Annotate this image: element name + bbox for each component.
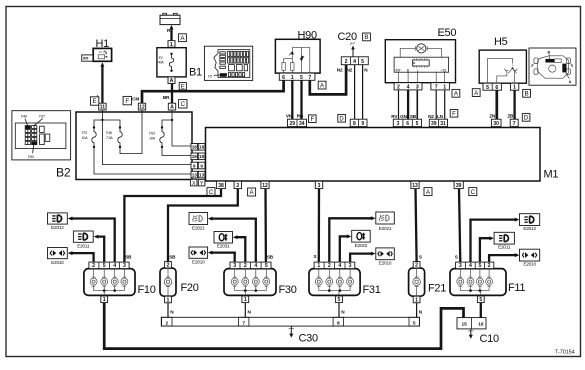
node label C xyxy=(207,188,215,196)
svg-text:13: 13 xyxy=(192,173,198,178)
E50 internals xyxy=(394,44,449,83)
node label F (B2 pin12) xyxy=(123,96,131,104)
connector F20 body xyxy=(160,268,176,296)
svg-text:2: 2 xyxy=(488,263,491,269)
connector F21 body xyxy=(409,268,425,296)
svg-text:2: 2 xyxy=(397,85,400,91)
wire F31 pin4 to E2022 xyxy=(340,236,348,262)
svg-text:10A: 10A xyxy=(149,137,156,141)
M1 pin 3 xyxy=(315,181,322,188)
svg-text:2: 2 xyxy=(165,320,168,326)
E2021 icon box xyxy=(189,213,208,225)
node label B (H5 pin1) xyxy=(523,89,531,97)
C20 pin row 2 4 5 xyxy=(341,57,368,65)
fuse F53 10A xyxy=(172,110,191,146)
connector F30 body xyxy=(224,269,276,296)
svg-text:SB: SB xyxy=(125,255,132,260)
E2011 icon box xyxy=(494,232,514,244)
svg-text:S: S xyxy=(455,255,458,260)
wire C20 pin4 to M1 pin8 xyxy=(354,65,356,120)
svg-text:6: 6 xyxy=(282,75,285,81)
svg-text:39: 39 xyxy=(456,183,462,189)
svg-text:ZN: ZN xyxy=(489,113,496,118)
pins 19/19 xyxy=(191,153,198,160)
node label F xyxy=(450,110,458,118)
svg-text:L: L xyxy=(417,68,419,72)
fuse F48 7.5A xyxy=(119,126,121,128)
svg-text:2: 2 xyxy=(244,263,247,269)
wire F31 pin5 to C30 pin8 (N) xyxy=(338,303,340,318)
wire E50 pin3 to M1 pin5 (SB) xyxy=(416,90,418,119)
F10 pin row xyxy=(89,262,129,269)
pins 9/9 xyxy=(191,162,198,169)
wire F10 pin1 to C10 pin15 (main earth run) xyxy=(104,303,463,349)
F31 pin row xyxy=(314,262,355,269)
svg-text:A: A xyxy=(170,78,174,84)
C30 pin 5 xyxy=(409,317,419,326)
M1 pin 12 xyxy=(261,181,269,188)
svg-text:7: 7 xyxy=(513,121,516,127)
svg-text:5: 5 xyxy=(265,263,268,269)
E2012 icon box xyxy=(48,213,68,224)
svg-text:18: 18 xyxy=(199,145,205,150)
svg-text:SB: SB xyxy=(267,255,274,260)
svg-text:7: 7 xyxy=(242,320,245,326)
wire M1 pin3 to F31 pin1 (S) xyxy=(318,189,321,263)
svg-text:CM: CM xyxy=(132,96,139,101)
M1 top pin 7 xyxy=(510,119,518,126)
svg-text:5: 5 xyxy=(338,297,341,303)
earth bar C30 xyxy=(161,317,419,326)
body computer M1 xyxy=(206,128,541,182)
svg-text:F48: F48 xyxy=(21,115,27,119)
svg-text:5: 5 xyxy=(479,297,482,303)
svg-text:1: 1 xyxy=(167,297,170,303)
wire M1 pin38 to F10 pin3 (SB) xyxy=(124,189,221,263)
connector F31 body xyxy=(309,269,360,296)
wire F30 pin4 to E2021 xyxy=(211,219,256,263)
node label E (B2 pin11) xyxy=(90,97,98,105)
F31 bottom pin 5 xyxy=(336,296,343,303)
svg-text:RG: RG xyxy=(297,113,304,118)
svg-text:C: C xyxy=(209,189,214,196)
svg-text:4: 4 xyxy=(469,263,472,269)
svg-text:11: 11 xyxy=(100,105,106,111)
svg-text:ZB: ZB xyxy=(507,113,514,118)
F11 bottom pin 5 xyxy=(477,296,484,303)
svg-text:5: 5 xyxy=(486,85,489,91)
svg-text:F2: F2 xyxy=(208,75,212,79)
wire F31 pin2 to E2021 xyxy=(329,218,372,262)
svg-text:3: 3 xyxy=(349,263,352,269)
battery symbol xyxy=(160,13,180,24)
svg-text:F31: F31 xyxy=(363,284,381,296)
svg-text:F30: F30 xyxy=(279,284,297,296)
node label A xyxy=(248,188,256,196)
E50 pin row 2 4 3 7 1 xyxy=(394,83,422,90)
node label F xyxy=(309,115,317,123)
wire H5 pin6 to M1 pin30 (ZN) xyxy=(495,90,498,119)
svg-text:Y: Y xyxy=(200,181,204,187)
E2021 icon box xyxy=(376,212,395,224)
svg-text:1: 1 xyxy=(170,42,173,48)
svg-text:4: 4 xyxy=(353,59,356,65)
wire H90 pin6 to B2 pin12 (CM) xyxy=(142,80,284,103)
svg-text:12: 12 xyxy=(139,105,145,111)
E2010 icon box xyxy=(48,248,68,259)
B2 pin A xyxy=(168,103,175,110)
node label Y xyxy=(198,179,205,186)
svg-text:F21: F21 xyxy=(428,283,446,295)
B2 pin 12 xyxy=(138,103,145,110)
svg-text:38: 38 xyxy=(218,183,224,189)
svg-text:3: 3 xyxy=(123,263,126,269)
wire F30 pin3 to E2010 xyxy=(211,253,234,263)
wire E50 pin1 to M1 pin31 (LN) xyxy=(444,90,446,119)
INT tag xyxy=(82,55,93,61)
svg-text:5: 5 xyxy=(300,75,303,81)
E2022 icon box xyxy=(352,230,371,242)
wire H90 pin1 to M1 pin29 (VN) xyxy=(291,80,293,119)
svg-text:4: 4 xyxy=(407,85,410,91)
B2 fusebox location illustration xyxy=(12,111,71,160)
svg-text:1: 1 xyxy=(415,297,418,303)
F20 bottom pin 1 xyxy=(165,296,172,303)
svg-text:T-70154: T-70154 xyxy=(555,350,575,356)
wire F20 pin1 to C30 pin2 (N) xyxy=(167,303,169,318)
svg-text:C30: C30 xyxy=(299,332,318,344)
connector F10 body xyxy=(84,269,135,296)
svg-text:D: D xyxy=(524,116,529,122)
wire M1 pin39 to F11 pin3 (S) xyxy=(459,189,460,263)
svg-text:F: F xyxy=(125,98,129,105)
earth connector C10 xyxy=(457,318,486,329)
svg-text:3: 3 xyxy=(233,263,236,269)
wire H5 pin1 to M1 pin7 (ZB) xyxy=(513,90,515,119)
connector F11 body xyxy=(450,269,506,296)
svg-text:19: 19 xyxy=(192,154,198,159)
F30 lamps xyxy=(234,269,236,277)
wire E50 pin7 to M1 pin39 (N2) xyxy=(435,90,437,119)
svg-text:6: 6 xyxy=(495,85,498,91)
svg-text:N2: N2 xyxy=(347,67,353,72)
fusebox B2 xyxy=(76,112,192,180)
svg-text:3: 3 xyxy=(459,263,462,269)
svg-text:7: 7 xyxy=(308,75,311,81)
svg-text:5: 5 xyxy=(416,121,419,127)
E2010 icon box xyxy=(376,248,395,260)
M1 top pins 39 31 xyxy=(429,119,447,126)
svg-text:LN: LN xyxy=(437,114,444,119)
svg-text:2: 2 xyxy=(167,263,170,269)
svg-text:E2031: E2031 xyxy=(217,244,230,249)
svg-text:B: B xyxy=(525,91,529,98)
svg-text:E2021: E2021 xyxy=(379,226,392,231)
svg-text:7: 7 xyxy=(435,85,438,91)
wire E50 pin4 to M1 pin6 (GN) xyxy=(407,90,409,119)
F31 lamps xyxy=(318,269,320,277)
wire F21 pin1 to C30 pin5 (N) xyxy=(416,303,418,318)
svg-text:4: 4 xyxy=(254,263,257,269)
E2010 icon box xyxy=(520,249,540,261)
C30 pin 8 xyxy=(333,317,343,326)
engine fusebox illustration xyxy=(204,46,252,80)
svg-text:7.5A: 7.5A xyxy=(106,136,113,140)
svg-text:1: 1 xyxy=(103,297,106,303)
M1 top pins 3 6 5 xyxy=(393,119,421,126)
wire F30 pin2 to E2031 xyxy=(236,237,245,262)
svg-text:F37: F37 xyxy=(39,115,45,119)
wire H90 pin5 to M1 pin34 (RG) xyxy=(300,80,302,119)
wire B1 pinA to B2 pinA (BR) xyxy=(171,84,173,104)
B2 internal: pin11 feed xyxy=(102,110,191,165)
svg-text:39: 39 xyxy=(431,121,437,127)
svg-text:4: 4 xyxy=(338,263,341,269)
B1 pin A xyxy=(168,77,175,84)
M1 pin 13 xyxy=(411,181,419,188)
svg-text:1: 1 xyxy=(317,263,320,269)
pins 18/18 xyxy=(191,144,198,151)
svg-text:2: 2 xyxy=(345,59,348,65)
svg-text:12: 12 xyxy=(262,183,268,189)
svg-text:5: 5 xyxy=(413,320,416,326)
svg-text:2: 2 xyxy=(328,263,331,269)
svg-text:M1: M1 xyxy=(544,169,559,181)
svg-text:X: X xyxy=(192,181,196,187)
svg-text:SB: SB xyxy=(169,254,176,259)
svg-text:16: 16 xyxy=(478,321,484,327)
M1 pin 38 xyxy=(216,181,225,188)
node label B (C20) xyxy=(363,33,371,41)
svg-text:F10: F10 xyxy=(138,284,156,296)
svg-text:SB: SB xyxy=(410,114,417,119)
node label E (B1 out) xyxy=(179,83,186,90)
E2011 icon box xyxy=(73,231,93,242)
F20 lamp xyxy=(167,268,169,277)
wire M1 pin2 to F20 pin2 (SB) xyxy=(168,189,238,262)
wire F10 pin4 to E2012 xyxy=(72,219,115,263)
svg-text:F: F xyxy=(452,112,456,118)
svg-text:5: 5 xyxy=(478,263,481,269)
svg-text:1: 1 xyxy=(244,297,247,303)
svg-text:A: A xyxy=(170,105,174,111)
svg-text:F48: F48 xyxy=(106,131,112,135)
svg-text:+15: +15 xyxy=(441,68,447,72)
svg-text:9: 9 xyxy=(361,121,364,127)
svg-text:40A: 40A xyxy=(158,61,165,65)
H90 internals xyxy=(282,47,310,73)
svg-text:E2012: E2012 xyxy=(523,226,536,231)
svg-text:E2010: E2010 xyxy=(379,260,392,265)
svg-text:C: C xyxy=(471,189,476,196)
node label C (B2 pinA) xyxy=(179,100,187,108)
wire M1 pin12 to F30 pin5 (SB) xyxy=(264,189,267,263)
E2031 icon box xyxy=(214,232,233,244)
svg-text:1: 1 xyxy=(513,85,516,91)
svg-text:S: S xyxy=(313,254,316,259)
svg-text:F2: F2 xyxy=(159,56,163,60)
E2012 icon box xyxy=(520,214,540,226)
svg-text:F20: F20 xyxy=(181,282,199,294)
C30 pin 2 xyxy=(162,317,172,326)
B1 pin 1 xyxy=(168,41,175,48)
wire F10 pin5 to E2011 xyxy=(97,237,104,263)
svg-text:9: 9 xyxy=(193,163,196,168)
svg-text:1: 1 xyxy=(291,75,294,81)
H90 pin row 6 1 5 7 xyxy=(279,73,315,80)
svg-text:E: E xyxy=(93,98,97,105)
svg-text:BR: BR xyxy=(163,95,170,100)
svg-text:N2: N2 xyxy=(337,67,343,72)
node label A (E50) xyxy=(452,89,460,97)
wire H90 pin7 to C20 pin2 xyxy=(310,65,346,95)
wire E50 pin2 to M1 pin3 (RV) xyxy=(398,90,400,119)
svg-text:5: 5 xyxy=(103,263,106,269)
wire C20 pin5 to M1 pin9 xyxy=(362,65,364,120)
svg-text:29: 29 xyxy=(290,121,296,127)
svg-text:GN: GN xyxy=(400,114,407,119)
B2 pin 11 xyxy=(99,103,106,110)
svg-text:F37: F37 xyxy=(82,131,88,135)
M1 pin 39 xyxy=(454,181,463,188)
svg-text:8: 8 xyxy=(353,121,356,127)
svg-text:C20: C20 xyxy=(338,31,357,43)
F20 top pin 2 xyxy=(165,262,172,268)
F21 bottom pin 1 xyxy=(413,296,420,303)
C20 splice symbol xyxy=(352,49,354,57)
svg-text:F53: F53 xyxy=(28,155,34,159)
svg-text:E2011: E2011 xyxy=(498,245,511,250)
wire B2 pin11 to H1 (L) arrow xyxy=(101,66,103,104)
ground symbol C30 xyxy=(290,326,292,334)
svg-text:13: 13 xyxy=(412,183,418,189)
svg-text:10A: 10A xyxy=(82,136,89,140)
svg-text:RV: RV xyxy=(391,114,398,119)
svg-text:B: B xyxy=(364,34,368,41)
svg-text:B1: B1 xyxy=(189,67,202,79)
svg-text:3: 3 xyxy=(397,121,400,127)
svg-text:C: C xyxy=(181,101,186,108)
node label X xyxy=(190,179,197,186)
node label A (H90) xyxy=(318,81,326,89)
svg-text:D: D xyxy=(339,117,344,123)
fuse F2 40A xyxy=(170,53,172,55)
svg-text:VN: VN xyxy=(286,113,293,118)
svg-text:1: 1 xyxy=(443,85,446,91)
wire F30 pin1 to C30 pin7 (N) xyxy=(244,303,246,318)
svg-text:E2012: E2012 xyxy=(51,225,64,230)
wire F31 pin3 to E2010 xyxy=(350,254,372,263)
wire F11 pin2 to E2010 xyxy=(489,255,516,262)
svg-text:3: 3 xyxy=(416,85,419,91)
E2010 icon box xyxy=(189,247,208,258)
wire B1 pin1 to battery (R) xyxy=(170,29,172,41)
M1 top pin 30 xyxy=(491,119,501,126)
node label A xyxy=(424,188,432,196)
svg-text:E2010: E2010 xyxy=(51,260,64,265)
pins 13/13 xyxy=(191,171,198,178)
svg-text:F: F xyxy=(310,117,314,123)
C30 pin 7 xyxy=(239,317,249,326)
svg-text:B2: B2 xyxy=(56,166,71,180)
svg-text:2: 2 xyxy=(415,263,418,269)
svg-text:E2021: E2021 xyxy=(192,226,205,231)
svg-text:S: S xyxy=(419,254,422,259)
svg-text:E2010: E2010 xyxy=(523,262,536,267)
F10 bottom pin 1 xyxy=(101,296,108,303)
svg-text:N2: N2 xyxy=(428,114,434,119)
svg-text:C10: C10 xyxy=(480,333,499,345)
wire M1 pin13 to F21 pin2 (S) xyxy=(416,189,417,262)
F11 lamps xyxy=(459,269,461,277)
F30 bottom pin 1 xyxy=(242,296,249,303)
F10 lamps xyxy=(93,269,95,277)
svg-text:3: 3 xyxy=(318,183,321,189)
svg-text:2: 2 xyxy=(236,183,239,189)
svg-text:31: 31 xyxy=(440,121,446,127)
wire F11 pin5 to C10 pin16 xyxy=(480,303,482,318)
node label C xyxy=(469,188,477,196)
svg-text:6: 6 xyxy=(406,121,409,127)
svg-text:4: 4 xyxy=(113,263,116,269)
svg-text:E: E xyxy=(181,84,185,90)
svg-text:13: 13 xyxy=(199,173,205,178)
svg-text:E2022: E2022 xyxy=(355,243,368,248)
svg-text:34: 34 xyxy=(299,121,305,127)
M1 pin 2 xyxy=(234,181,241,188)
car location illustration xyxy=(529,48,576,85)
svg-text:F11: F11 xyxy=(508,282,525,294)
node label A (H5) xyxy=(472,89,480,97)
ground symbol C10 xyxy=(470,329,472,336)
svg-text:E2011: E2011 xyxy=(77,243,90,248)
F30 pin row xyxy=(230,262,271,269)
wire F11 pin5 to E2011 xyxy=(480,238,491,262)
F21 lamp xyxy=(416,268,418,277)
svg-text:8: 8 xyxy=(337,320,340,326)
svg-text:H5: H5 xyxy=(494,36,508,48)
svg-text:30: 30 xyxy=(493,121,499,127)
svg-text:15: 15 xyxy=(462,321,468,327)
wire F10 pin2 to E2010 xyxy=(72,253,94,262)
svg-text:18: 18 xyxy=(192,145,198,150)
node label D xyxy=(338,115,346,123)
node label D xyxy=(522,114,530,122)
svg-text:F53: F53 xyxy=(149,132,155,136)
M1 top pins 29 34 xyxy=(288,119,307,126)
svg-text:5: 5 xyxy=(361,59,364,65)
node label A (battery wire) xyxy=(179,34,187,42)
svg-text:2: 2 xyxy=(92,263,95,269)
fuse F37 10A xyxy=(93,126,95,128)
H5 pin row 5 6 / 1 xyxy=(483,83,501,90)
svg-text:E50: E50 xyxy=(438,27,457,39)
F11 pin row xyxy=(456,262,494,269)
fuse holder B1 xyxy=(157,48,186,77)
wire F11 pin4 to E2012 xyxy=(471,220,517,263)
svg-text:19: 19 xyxy=(199,154,205,159)
F21 top pin 2 xyxy=(413,262,420,268)
svg-text:9: 9 xyxy=(200,163,203,168)
H5 internals xyxy=(488,58,517,83)
svg-text:E2010: E2010 xyxy=(192,260,205,265)
